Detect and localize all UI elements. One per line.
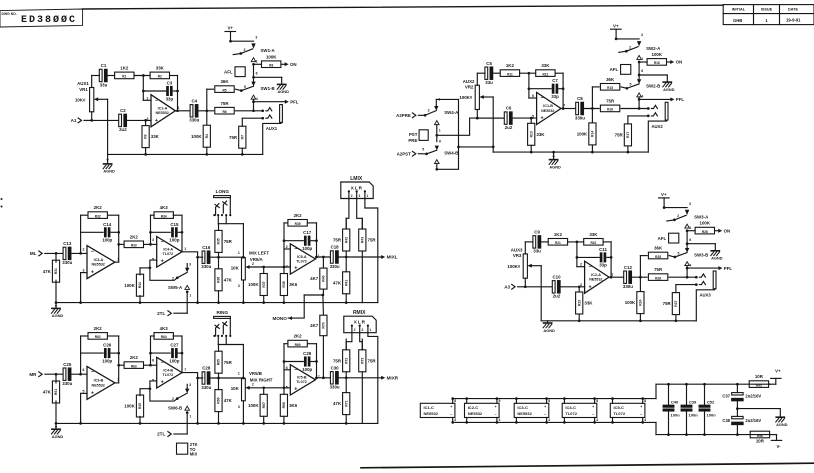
svg-text:R65: R65	[217, 359, 221, 365]
svg-text:C12: C12	[624, 265, 633, 270]
wire XLR RMIX pin2	[346, 333, 352, 350]
op-amp supply IC5-C TL072	[610, 397, 646, 424]
svg-text:SW1-B: SW1-B	[261, 86, 275, 91]
capacitor C7 33p	[529, 78, 563, 99]
svg-text:6: 6	[286, 366, 288, 370]
svg-text:330u: 330u	[201, 385, 211, 390]
resistor R43 75R	[359, 218, 377, 302]
svg-text:MIX LEFT: MIX LEFT	[249, 250, 269, 255]
wire inverting input riser	[576, 242, 585, 267]
svg-text:R64: R64	[161, 335, 167, 339]
svg-text:3K6: 3K6	[289, 282, 298, 287]
wire feedback riser IC5-B	[283, 344, 304, 395]
power V+ of AUX1	[225, 26, 236, 43]
wire left margin marks	[1, 198, 3, 208]
wire feedback riser IC4-A	[149, 215, 170, 244]
capacitor C9 33u	[533, 230, 541, 254]
resistor R71 47K	[333, 378, 350, 425]
ground AGND of AUX2	[549, 151, 561, 170]
wire non-inverting network stage2	[149, 381, 178, 401]
resistor R7 75R	[229, 118, 246, 156]
switch SW4-A	[425, 97, 459, 115]
svg-text:C2: C2	[120, 108, 126, 113]
node A1 input	[71, 118, 92, 123]
svg-text:2: 2	[354, 328, 356, 332]
wire wiper of VR1 to ground bus	[107, 99, 109, 154]
capacitor C13 330u	[62, 241, 72, 265]
svg-text:75R: 75R	[220, 101, 229, 106]
switch SW3-A	[664, 202, 709, 221]
svg-text:XLR: XLR	[354, 320, 366, 325]
capacitor C52 100n	[699, 383, 716, 436]
resistor R67 100K	[248, 388, 267, 425]
svg-text:75R: 75R	[654, 267, 663, 272]
svg-text:ON: ON	[290, 62, 297, 67]
op-amp IC5-B	[286, 365, 320, 395]
svg-text:NE5532: NE5532	[156, 111, 169, 115]
svg-text:XLR: XLR	[351, 185, 363, 190]
svg-text:75R: 75R	[368, 358, 377, 363]
svg-text:IC4-A: IC4-A	[163, 248, 173, 252]
svg-text:LONG: LONG	[216, 189, 230, 194]
resistor R38 3K6	[280, 274, 297, 304]
svg-text:1: 1	[611, 272, 613, 276]
svg-text:C4: C4	[191, 98, 197, 103]
connector XLR LMIX	[341, 176, 373, 199]
svg-text:R12: R12	[542, 72, 548, 76]
svg-text:AGND: AGND	[103, 169, 115, 174]
wire XLR RMIX pin3	[360, 333, 363, 350]
svg-text:33u: 33u	[100, 82, 108, 87]
svg-text:1: 1	[439, 129, 441, 133]
svg-text:C9: C9	[534, 230, 540, 235]
svg-text:−: −	[91, 370, 94, 376]
resistor R70 4K7	[310, 295, 327, 379]
capacitor C26 100p	[102, 343, 119, 364]
svg-text:6: 6	[641, 69, 643, 73]
svg-text:+: +	[450, 405, 452, 409]
wire output node to bus	[196, 378, 199, 425]
jack AUX2 tip contact	[651, 105, 657, 108]
svg-text:+: +	[294, 266, 297, 272]
svg-text:SW3-B: SW3-B	[694, 252, 708, 257]
svg-text:R41: R41	[344, 280, 348, 286]
svg-text:R14: R14	[591, 131, 595, 137]
svg-text:47K: 47K	[43, 269, 52, 274]
wire wiper line	[249, 266, 290, 269]
svg-text:A3: A3	[504, 285, 510, 290]
node PFL-feed connector (pin 1)	[251, 58, 258, 66]
capacitor C14 100p	[102, 222, 119, 243]
switch SW3-B	[674, 231, 709, 259]
power V+ of AUX3	[659, 192, 670, 209]
svg-text:MR: MR	[29, 372, 37, 377]
op-amp IC3-A	[82, 246, 119, 279]
svg-text:1K2: 1K2	[554, 232, 563, 237]
svg-text:AUX1: AUX1	[77, 81, 89, 86]
svg-text:V+: V+	[775, 369, 781, 374]
border bottom line	[361, 463, 814, 468]
svg-text:−: −	[294, 247, 297, 253]
svg-text:AFL: AFL	[658, 236, 667, 241]
wire feedback riser right	[562, 73, 565, 110]
svg-text:1: 1	[190, 294, 192, 298]
svg-text:C25: C25	[63, 362, 72, 367]
wire input to cap C10	[524, 285, 552, 288]
svg-text:2K2: 2K2	[94, 326, 103, 331]
svg-text:3: 3	[286, 265, 288, 269]
capacitor C25 330u	[62, 362, 72, 386]
node PFL output	[687, 266, 732, 271]
svg-text:33p: 33p	[551, 94, 559, 99]
ground AGND at SW3-B	[687, 244, 723, 261]
svg-text:PFL: PFL	[724, 266, 733, 271]
svg-text:AGND: AGND	[277, 89, 289, 94]
svg-text:330u: 330u	[62, 260, 72, 265]
svg-text:6: 6	[689, 238, 691, 242]
capacitor C6 2u2	[504, 106, 513, 130]
svg-text:R24: R24	[639, 299, 643, 305]
svg-text:6: 6	[256, 71, 258, 75]
ground bus ML chain	[56, 302, 378, 304]
svg-text:VR3: VR3	[513, 253, 522, 258]
resistor R34 4K3	[151, 205, 183, 218]
svg-text:100K: 100K	[124, 283, 135, 288]
svg-text:R66: R66	[217, 397, 221, 403]
wire XLR LMIX pin1 to bus	[365, 199, 378, 303]
capacitor C29 100p	[302, 351, 316, 372]
svg-text:NE5532: NE5532	[541, 109, 554, 113]
wire output riser stage3	[315, 223, 318, 258]
svg-text:NE5532: NE5532	[92, 263, 105, 267]
svg-text:AUX1: AUX1	[266, 126, 278, 131]
svg-text:3: 3	[189, 262, 191, 266]
svg-text:10K#: 10K#	[75, 97, 86, 102]
svg-text:TL072: TL072	[163, 252, 174, 256]
svg-text:5: 5	[82, 389, 84, 393]
svg-text:R39: R39	[295, 222, 301, 226]
resistor R16 75R	[600, 99, 649, 112]
svg-text:2TL: 2TL	[157, 432, 165, 437]
resistor R36 47K	[215, 257, 233, 304]
svg-text:6: 6	[152, 359, 154, 363]
wire output riser stage1	[115, 336, 120, 383]
svg-text:+: +	[589, 284, 592, 290]
svg-text:C6: C6	[506, 106, 512, 111]
svg-text:33K: 33K	[589, 232, 598, 237]
svg-text:ON: ON	[724, 228, 731, 233]
resistor R44 100K	[124, 268, 150, 304]
svg-text:C18: C18	[331, 245, 340, 250]
wire non-inverting input to bus	[79, 273, 87, 304]
svg-text:3: 3	[255, 35, 257, 39]
capacitor C11 33p	[577, 247, 611, 268]
svg-text:SW4-A: SW4-A	[444, 110, 459, 115]
border top line	[83, 5, 724, 9]
capacitor C37 2u2/16V	[722, 383, 761, 409]
wire mid rail to AGND	[736, 407, 780, 417]
resistor R42 75R	[333, 218, 350, 257]
svg-text:330u: 330u	[330, 385, 340, 390]
svg-text:R21: R21	[555, 241, 561, 245]
svg-text:LMIX: LMIX	[350, 176, 363, 182]
svg-text:R6: R6	[222, 110, 226, 114]
wire to inverting input	[72, 373, 87, 376]
svg-text:75R: 75R	[229, 135, 238, 140]
wire non-inverting input to bus	[79, 393, 87, 424]
svg-text:6: 6	[439, 139, 441, 143]
svg-text:R72: R72	[344, 358, 348, 364]
svg-text:AFL: AFL	[224, 69, 233, 74]
svg-text:5: 5	[678, 251, 680, 255]
jack RING	[213, 310, 231, 337]
svg-text:IC5-B: IC5-B	[297, 376, 307, 380]
node MR input	[29, 372, 62, 377]
svg-text:10K: 10K	[231, 265, 240, 270]
svg-text:V+: V+	[227, 26, 233, 31]
svg-text:R38: R38	[282, 281, 286, 287]
svg-text:5: 5	[152, 378, 154, 382]
svg-text:R68: R68	[282, 402, 286, 408]
svg-text:3: 3	[689, 202, 691, 206]
svg-text:VR2: VR2	[465, 85, 474, 90]
svg-text:100p: 100p	[169, 358, 179, 363]
ground AGND of AUX3	[543, 321, 555, 333]
svg-text:100p: 100p	[302, 246, 312, 251]
ground AGND of AUX1	[103, 154, 115, 173]
switch SW1-A	[231, 35, 276, 54]
resistor R65 75R	[215, 345, 233, 379]
resistor R39 2K2	[284, 213, 317, 226]
resistor R21 1K2	[541, 232, 584, 245]
resistor R40 4K7	[310, 257, 327, 295]
svg-text:IC1-B: IC1-B	[543, 104, 553, 108]
svg-text:R15: R15	[607, 86, 613, 90]
svg-text:+: +	[155, 118, 158, 124]
power V- power section	[771, 435, 781, 450]
svg-text:−: −	[494, 413, 496, 417]
svg-text:ON: ON	[676, 60, 683, 65]
potentiometer VR2 100K#	[459, 73, 493, 118]
svg-text:RMIX: RMIX	[353, 310, 366, 316]
svg-text:TL072: TL072	[614, 411, 626, 416]
svg-text:MIXL: MIXL	[387, 255, 398, 260]
svg-text:R33: R33	[131, 244, 137, 248]
svg-text:100K: 100K	[652, 52, 663, 57]
svg-text:PST: PST	[409, 132, 418, 137]
resistor R27 75R	[663, 285, 680, 323]
node A2PRE input	[396, 113, 426, 118]
svg-text:IC4-C: IC4-C	[565, 405, 576, 410]
svg-text:C28: C28	[202, 366, 211, 371]
svg-text:4K7: 4K7	[310, 323, 319, 328]
svg-text:4K3: 4K3	[160, 326, 169, 331]
node output junction	[585, 107, 600, 110]
jack AUX1 sleeve	[263, 105, 283, 155]
jack AUX2 ring contact	[628, 113, 658, 118]
svg-text:+: +	[494, 405, 496, 409]
wire inverting input riser	[528, 73, 537, 98]
svg-text:−: −	[91, 249, 94, 255]
svg-text:100K#: 100K#	[507, 264, 520, 269]
capacitor C16 330u	[201, 245, 211, 269]
svg-text:IC3-B: IC3-B	[94, 379, 104, 383]
ground bus MR chain	[56, 422, 378, 424]
svg-text:33u: 33u	[533, 249, 541, 254]
svg-text:NE5532: NE5532	[589, 278, 602, 282]
svg-text:ED38ØØC: ED38ØØC	[21, 14, 77, 26]
svg-text:A2PST: A2PST	[397, 152, 411, 157]
op-amp IC4-B	[152, 357, 186, 388]
svg-text:7: 7	[318, 375, 320, 379]
svg-text:PFL: PFL	[290, 99, 299, 104]
svg-text:4: 4	[256, 97, 258, 101]
svg-text:V+: V+	[613, 23, 619, 28]
svg-text:10R: 10R	[755, 374, 764, 379]
wire stage2 output	[182, 252, 203, 259]
svg-text:AUX2: AUX2	[652, 124, 664, 129]
svg-text:33K: 33K	[151, 134, 160, 139]
svg-text:R43: R43	[360, 237, 364, 243]
svg-text:IC2-C: IC2-C	[468, 405, 479, 410]
node PFL output	[254, 99, 299, 104]
capacitor C39 100n	[681, 383, 698, 436]
svg-text:R18: R18	[654, 61, 660, 65]
svg-text:330u: 330u	[201, 264, 211, 269]
capacitor C15 100p	[169, 222, 182, 243]
svg-text:SW4-B: SW4-B	[444, 150, 458, 155]
capacitor C10 2u2	[552, 274, 561, 298]
node ON output	[718, 228, 730, 233]
wire cap C2 to non-inverting input	[128, 119, 152, 122]
svg-text:R45: R45	[138, 403, 142, 409]
svg-text:NE5532: NE5532	[517, 411, 532, 416]
svg-text:4: 4	[596, 418, 598, 422]
svg-text:+: +	[592, 405, 594, 409]
svg-text:SW3-A: SW3-A	[694, 215, 709, 220]
wire V+ rail power section	[453, 384, 656, 398]
capacitor C8 330u	[561, 96, 585, 120]
svg-text:C39: C39	[689, 399, 697, 404]
svg-text:+: +	[161, 259, 164, 265]
resistor R6 75R	[215, 101, 264, 114]
svg-text:330u: 330u	[575, 115, 585, 120]
node ON output	[670, 60, 682, 65]
svg-text:R25: R25	[655, 255, 661, 259]
svg-text:R31: R31	[54, 268, 58, 274]
svg-text:AGND: AGND	[549, 164, 561, 169]
svg-text:2: 2	[172, 276, 174, 280]
wire top supply rail	[656, 383, 770, 385]
svg-text:R2: R2	[158, 75, 162, 79]
resistor R95 10R	[749, 374, 776, 387]
ground AGND power section	[776, 417, 788, 427]
svg-text:R22: R22	[590, 241, 596, 245]
svg-text:R70: R70	[322, 322, 326, 328]
svg-text:3: 3	[362, 328, 364, 332]
svg-text:TL072: TL072	[163, 373, 174, 377]
power V+ of AUX2	[611, 23, 622, 40]
svg-text:2u2: 2u2	[119, 127, 127, 132]
svg-text:R37: R37	[262, 281, 266, 287]
svg-text:R62: R62	[95, 335, 101, 339]
svg-text:10R: 10R	[756, 439, 765, 444]
capacitor C1 33u	[99, 63, 107, 87]
box 2TK TO MIX	[177, 442, 198, 456]
wire bottom supply rail	[656, 434, 770, 436]
svg-text:DATE: DATE	[788, 8, 799, 12]
svg-text:C17: C17	[303, 230, 312, 235]
svg-text:4: 4	[690, 263, 692, 267]
svg-text:V+: V+	[661, 192, 667, 197]
resistor R66 47K	[215, 378, 233, 425]
resistor R72 75R	[333, 339, 350, 378]
svg-text:330u: 330u	[62, 381, 72, 386]
resistor R68 3K6	[280, 394, 297, 424]
svg-text:C5: C5	[486, 61, 492, 66]
svg-text:1: 1	[367, 194, 369, 198]
svg-text:36K: 36K	[220, 79, 229, 84]
svg-text:ISSUE: ISSUE	[761, 8, 773, 12]
switch SW6-B	[168, 383, 191, 410]
connector XLR RMIX	[344, 310, 376, 333]
svg-text:R69: R69	[295, 343, 301, 347]
node PFL connector (pin 4)	[685, 262, 692, 279]
svg-text:C1: C1	[101, 63, 107, 68]
ground bus of AUX1	[108, 153, 263, 155]
wire output riser stage3	[315, 344, 318, 379]
node PFL connector (pin 4)	[637, 93, 644, 110]
svg-text:R36: R36	[217, 277, 221, 283]
svg-text:7: 7	[184, 368, 186, 372]
svg-text:R16: R16	[607, 108, 613, 112]
jack AUX1 tip contact	[266, 108, 272, 111]
svg-text:+: +	[544, 405, 546, 409]
resistor R14 100K	[577, 109, 596, 154]
svg-text:AGND: AGND	[776, 422, 788, 427]
wire XLR LMIX pin2	[346, 199, 349, 230]
svg-text:−: −	[544, 413, 546, 417]
svg-text:R96: R96	[757, 434, 763, 438]
svg-text:AUX2: AUX2	[463, 79, 475, 84]
svg-text:36K: 36K	[654, 246, 663, 251]
svg-text:330u: 330u	[189, 118, 199, 123]
svg-text:75R: 75R	[333, 238, 342, 243]
svg-text:C37: C37	[722, 393, 730, 398]
wire input to cap C6	[476, 117, 504, 120]
wire jack RING normalling	[218, 336, 243, 378]
resistor R1 1K2	[107, 66, 150, 79]
op-amp IC3-B	[82, 366, 119, 399]
svg-text:100K: 100K	[248, 403, 259, 408]
svg-text:100p: 100p	[102, 358, 112, 363]
potentiometer VR1 10K#	[75, 76, 108, 121]
svg-text:SW2-A: SW2-A	[646, 46, 661, 51]
node PFL-feed connector (pin 1)	[637, 55, 644, 63]
node ON output	[285, 62, 297, 67]
svg-text:19-9-91: 19-9-91	[786, 18, 801, 23]
wire cap C10 to non-inverting input	[561, 285, 585, 288]
capacitor C4 330u	[175, 98, 199, 122]
svg-text:AUX3: AUX3	[700, 293, 712, 298]
svg-text:1: 1	[690, 226, 692, 230]
jack AUX2 sleeve	[648, 102, 668, 152]
svg-text:R61: R61	[54, 389, 58, 395]
svg-text:C14: C14	[103, 222, 112, 227]
svg-text:4: 4	[644, 418, 646, 422]
switch SW5-A	[168, 262, 191, 289]
node 2TL input	[157, 311, 187, 316]
